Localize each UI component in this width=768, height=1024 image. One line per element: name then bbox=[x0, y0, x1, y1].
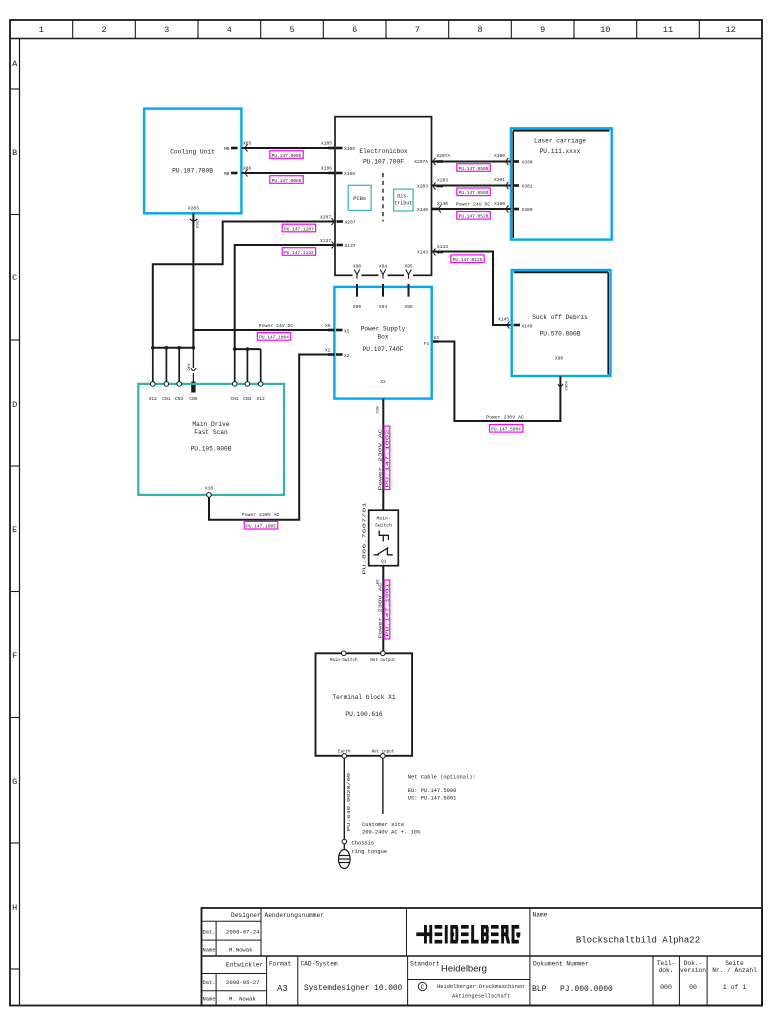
svg-text:X2: X2 bbox=[325, 348, 331, 354]
svg-text:CN3: CN3 bbox=[243, 396, 252, 402]
wire X203 to X301 bbox=[432, 177, 511, 189]
block Laser carriage bbox=[511, 128, 612, 239]
node X106 labels at Electronicbox bbox=[321, 166, 355, 177]
svg-text:PU.147.1004: PU.147.1004 bbox=[259, 335, 289, 341]
block Electronicbox bbox=[335, 117, 432, 276]
cable label PU.147.0520 bbox=[457, 212, 490, 220]
letter strip dividers bbox=[10, 89, 20, 969]
svg-text:PCBs: PCBs bbox=[353, 196, 366, 202]
cable label PU.147.0503 bbox=[457, 188, 490, 196]
svg-text:X207A: X207A bbox=[437, 153, 451, 159]
svg-text:X143: X143 bbox=[437, 244, 448, 250]
svg-text:CN1: CN1 bbox=[162, 396, 171, 402]
svg-text:9: 9 bbox=[540, 25, 545, 35]
svg-text:6: 6 bbox=[352, 25, 357, 35]
rotated cable label PU.147.1002 bbox=[384, 426, 391, 490]
svg-text:Power 24V DC: Power 24V DC bbox=[456, 202, 491, 208]
svg-text:M.Nowak: M.Nowak bbox=[229, 947, 253, 954]
grid numbers bbox=[39, 25, 736, 35]
svg-text:CN3: CN3 bbox=[175, 396, 184, 402]
svg-text:E: E bbox=[12, 525, 17, 535]
svg-text:PJ.000.0000: PJ.000.0000 bbox=[560, 985, 613, 994]
svg-text:US: PU.147.5001: US: PU.147.5001 bbox=[408, 796, 457, 802]
pin X2 bottom of PSB bbox=[377, 379, 386, 414]
pin X140 right of Electronicbox bbox=[417, 201, 448, 213]
svg-text:PU.147.0125: PU.147.0125 bbox=[453, 257, 483, 263]
pin X380 on Laser carriage bbox=[513, 207, 533, 213]
svg-text:X46: X46 bbox=[186, 364, 190, 372]
svg-text:PU.147.0505: PU.147.0505 bbox=[459, 166, 489, 172]
svg-text:G: G bbox=[12, 777, 17, 787]
svg-text:X140: X140 bbox=[437, 201, 448, 207]
svg-text:X203: X203 bbox=[188, 206, 199, 212]
svg-text:X140: X140 bbox=[417, 207, 428, 213]
svg-text:Power Supply: Power Supply bbox=[361, 326, 406, 333]
svg-text:ring tongue: ring tongue bbox=[352, 849, 388, 855]
svg-text:PU.100.616: PU.100.616 bbox=[345, 711, 382, 718]
rotated cable label PU.147.1001 bbox=[384, 580, 391, 639]
wire Cooling MB to Electronicbox X106 bbox=[241, 172, 335, 174]
block Terminal block X1 bbox=[316, 653, 413, 756]
svg-text:2008-07-24: 2008-07-24 bbox=[226, 929, 260, 936]
svg-text:Blockschaltbild Alpha22: Blockschaltbild Alpha22 bbox=[576, 936, 700, 946]
svg-text:MB: MB bbox=[224, 171, 230, 177]
wire Cooling X203 down to Main Drive bus bbox=[192, 213, 194, 347]
svg-text:8: 8 bbox=[477, 25, 482, 35]
switch actuator symbol bbox=[379, 531, 388, 541]
wire Cooling MB to Electronicbox X105 bbox=[241, 147, 335, 149]
letter strip right line bbox=[19, 39, 21, 1006]
svg-text:Dat.: Dat. bbox=[203, 980, 216, 986]
svg-text:X207: X207 bbox=[345, 220, 356, 226]
svg-text:PU.640.0020/00: PU.640.0020/00 bbox=[347, 772, 352, 831]
svg-text:BLP: BLP bbox=[532, 985, 547, 994]
svg-text:Power 230V AC: Power 230V AC bbox=[378, 428, 383, 491]
pin labels on Main Drive bbox=[149, 396, 265, 402]
wire Electronicbox X207 to Main Drive bbox=[153, 222, 335, 348]
svg-text:Heidelberg: Heidelberg bbox=[441, 964, 487, 975]
block Suck off Debris bbox=[512, 270, 611, 376]
svg-text:X106: X106 bbox=[344, 171, 355, 177]
svg-text:X105: X105 bbox=[321, 141, 332, 147]
svg-text:X301: X301 bbox=[522, 184, 533, 190]
cable label PU.147.0086 bbox=[270, 176, 303, 184]
svg-text:Nr. / Anzahl: Nr. / Anzahl bbox=[712, 967, 757, 974]
wire Electronicbox X137 to Main Drive bbox=[235, 245, 335, 349]
svg-text:Heidelberger Druckmaschinen: Heidelberger Druckmaschinen bbox=[437, 984, 524, 990]
svg-text:Aktiengesellschaft: Aktiengesellschaft bbox=[452, 994, 510, 1000]
svg-text:X95: X95 bbox=[404, 304, 413, 310]
svg-text:X902: X902 bbox=[563, 381, 567, 391]
connector X902 on wire bbox=[558, 381, 567, 391]
wire Earth to chassis bbox=[343, 758, 345, 839]
wire X143 to Suck off Debris bbox=[432, 252, 512, 326]
svg-text:PU.107.740F: PU.107.740F bbox=[363, 346, 404, 353]
svg-text:F: F bbox=[12, 651, 17, 661]
number strip dividers bbox=[73, 20, 700, 39]
grid letters bbox=[12, 59, 18, 913]
copyright symbol bbox=[418, 982, 426, 990]
svg-text:Entwickler: Entwickler bbox=[226, 962, 263, 969]
pin Net output top of Terminal block bbox=[370, 651, 396, 663]
svg-text:Box: Box bbox=[377, 334, 388, 341]
svg-text:PU.147.0503: PU.147.0503 bbox=[459, 190, 489, 196]
wire X140 to X380 Power 24V DC bbox=[432, 201, 511, 213]
pin Earth bottom of Terminal block bbox=[338, 750, 351, 759]
pin Net input bottom of Terminal block bbox=[372, 750, 395, 759]
svg-text:X137: X137 bbox=[345, 243, 356, 249]
svg-text:X140: X140 bbox=[522, 324, 533, 330]
svg-text:Designer: Designer bbox=[231, 912, 261, 919]
cable label PU.147.1207 bbox=[282, 215, 331, 233]
pin X207A right of Electronicbox bbox=[414, 153, 450, 165]
svg-text:PU.147.0085: PU.147.0085 bbox=[272, 153, 302, 159]
svg-text:Dokument Nummer: Dokument Nummer bbox=[533, 961, 589, 968]
svg-text:Standort: Standort bbox=[410, 961, 440, 968]
block Main Switch bbox=[369, 510, 399, 566]
svg-text:X207A: X207A bbox=[414, 159, 428, 165]
svg-text:Dis-: Dis- bbox=[397, 194, 409, 200]
cable label PU.147.1005 bbox=[244, 521, 277, 529]
right bus above Main Drive bbox=[233, 347, 261, 351]
pin X137 left of Electronicbox bbox=[332, 242, 356, 250]
svg-text:X137: X137 bbox=[320, 238, 331, 244]
svg-text:PU.107.700F: PU.107.700F bbox=[363, 159, 404, 166]
svg-text:X90: X90 bbox=[353, 304, 362, 310]
cable label PU.147.1004 bbox=[257, 333, 290, 341]
svg-text:Fast Scan: Fast Scan bbox=[194, 429, 228, 436]
svg-text:Laser carriage: Laser carriage bbox=[534, 138, 586, 145]
pin MB lower on Cooling Unit bbox=[224, 166, 252, 177]
svg-text:X5: X5 bbox=[325, 323, 331, 329]
pin circles on Main Drive top bbox=[151, 382, 264, 387]
svg-text:Power 230V AC: Power 230V AC bbox=[242, 512, 280, 518]
svg-text:A3: A3 bbox=[277, 984, 288, 994]
svg-text:X12: X12 bbox=[257, 396, 266, 402]
svg-text:X105: X105 bbox=[344, 146, 355, 152]
svg-text:Main Drive: Main Drive bbox=[192, 421, 229, 428]
svg-text:12: 12 bbox=[726, 25, 736, 35]
svg-text:Power 24V DC: Power 24V DC bbox=[259, 323, 294, 329]
HEIDELBERG logo bbox=[416, 925, 520, 944]
svg-text:Q1: Q1 bbox=[381, 559, 387, 564]
ground electrode symbol bbox=[339, 844, 351, 869]
svg-text:X207: X207 bbox=[320, 215, 331, 221]
svg-text:X95: X95 bbox=[404, 264, 413, 270]
block Distribut inside Electronicbox bbox=[394, 189, 414, 211]
svg-text:X145: X145 bbox=[498, 317, 509, 323]
svg-text:5: 5 bbox=[289, 25, 294, 35]
pin X95 bottom of Electronicbox bbox=[404, 264, 413, 279]
wire X207A to X330 bbox=[432, 153, 511, 165]
pin X203 bottom of Cooling Unit bbox=[188, 206, 199, 229]
svg-text:X4: X4 bbox=[434, 335, 440, 341]
svg-text:X94: X94 bbox=[379, 264, 388, 270]
svg-text:Suck off Debris: Suck off Debris bbox=[532, 314, 588, 321]
svg-text:X300: X300 bbox=[494, 153, 505, 159]
svg-text:X330: X330 bbox=[522, 160, 533, 166]
wire Electronicbox X90 to PSB X90 bbox=[353, 284, 362, 310]
pin X330 on Laser carriage bbox=[513, 160, 533, 166]
pin X4 / F4 on Power Supply Box bbox=[423, 335, 439, 347]
svg-text:PU.570.800B: PU.570.800B bbox=[540, 331, 581, 338]
svg-text:X12: X12 bbox=[149, 396, 158, 402]
svg-text:Cooling Unit: Cooling Unit bbox=[170, 149, 215, 156]
svg-text:1 of 1: 1 of 1 bbox=[723, 984, 747, 991]
svg-text:PU.105.000B: PU.105.000B bbox=[191, 446, 232, 453]
svg-text:EU: PU.147.5000: EU: PU.147.5000 bbox=[408, 788, 457, 794]
svg-text:H: H bbox=[12, 903, 17, 913]
number strip bottom line bbox=[10, 38, 762, 40]
svg-text:CN5: CN5 bbox=[189, 396, 198, 402]
bus drops to pins X12 CN1 CN3 bbox=[152, 348, 154, 384]
wire Electronicbox X95 to PSB X95 bbox=[404, 284, 413, 310]
cable label PU.147.0085 bbox=[270, 151, 303, 159]
TITLEBLOCK bbox=[202, 908, 763, 1006]
drop to CN5 with connector bbox=[186, 348, 196, 393]
svg-text:C: C bbox=[12, 273, 17, 283]
svg-text:PU.147.1002: PU.147.1002 bbox=[386, 429, 391, 488]
svg-text:PU.111.xxxx: PU.111.xxxx bbox=[540, 148, 581, 155]
svg-text:version: version bbox=[680, 967, 706, 974]
svg-text:X106: X106 bbox=[321, 166, 332, 172]
svg-text:dok.: dok. bbox=[659, 967, 674, 974]
bottom half rows bbox=[202, 973, 267, 975]
pin X94 bottom of Electronicbox bbox=[379, 264, 388, 279]
cable label PU.147.0125 bbox=[451, 255, 484, 263]
svg-text:7: 7 bbox=[415, 25, 420, 35]
svg-text:00: 00 bbox=[689, 984, 697, 991]
svg-text:2: 2 bbox=[101, 25, 106, 35]
svg-text:X380: X380 bbox=[494, 201, 505, 207]
svg-text:X90: X90 bbox=[353, 264, 362, 270]
wire Suck off Debris to mains bbox=[432, 342, 561, 422]
svg-text:CN1: CN1 bbox=[231, 396, 240, 402]
svg-text:Terminal block X1: Terminal block X1 bbox=[332, 694, 395, 701]
svg-text:X10: X10 bbox=[205, 486, 214, 492]
svg-text:X90: X90 bbox=[555, 356, 564, 362]
svg-text:CAD-System: CAD-System bbox=[301, 961, 338, 968]
pin Main-Switch top of Terminal block bbox=[330, 651, 358, 663]
svg-text:Power 230V AC: Power 230V AC bbox=[486, 415, 524, 421]
svg-text:X203: X203 bbox=[417, 184, 428, 190]
svg-text:Chassis: Chassis bbox=[352, 841, 375, 847]
svg-text:X94: X94 bbox=[379, 304, 388, 310]
svg-text:PU.806.7607/01: PU.806.7607/01 bbox=[362, 502, 367, 575]
svg-text:tribut: tribut bbox=[394, 201, 412, 207]
cable label PU.147.0505 bbox=[457, 164, 490, 172]
svg-text:X301: X301 bbox=[494, 177, 505, 183]
svg-text:10: 10 bbox=[600, 25, 610, 35]
svg-text:4: 4 bbox=[227, 25, 232, 35]
wire Electronicbox X94 to PSB X94 bbox=[379, 284, 388, 310]
svg-text:000: 000 bbox=[660, 984, 672, 991]
cable label PU.147.5004 bbox=[490, 425, 523, 433]
svg-text:F4: F4 bbox=[423, 341, 429, 347]
svg-text:D: D bbox=[12, 400, 17, 410]
block PCBs inside Electronicbox bbox=[348, 185, 371, 210]
block Power Supply Box bbox=[334, 287, 431, 399]
svg-text:A: A bbox=[12, 59, 18, 69]
switch contact symbol bbox=[374, 554, 380, 556]
wire Main Drive X10 to PSB X2 bbox=[209, 355, 334, 520]
svg-text:X2W: X2W bbox=[377, 406, 381, 414]
svg-text:Format: Format bbox=[269, 961, 292, 968]
pin MB upper on Cooling Unit bbox=[224, 141, 252, 152]
svg-text:Net Cable (optional):: Net Cable (optional): bbox=[408, 775, 476, 781]
svg-text:11: 11 bbox=[663, 25, 673, 35]
svg-text:Power 230V AC: Power 230V AC bbox=[378, 582, 383, 639]
svg-text:C: C bbox=[421, 984, 425, 991]
svg-text:Net output: Net output bbox=[370, 659, 396, 663]
svg-text:Teil-: Teil- bbox=[657, 960, 676, 967]
svg-text:Name: Name bbox=[533, 912, 548, 919]
pin X301 on Laser carriage bbox=[513, 184, 533, 190]
svg-text:Dat.: Dat. bbox=[203, 930, 216, 936]
svg-text:Switch: Switch bbox=[375, 523, 392, 529]
svg-text:3: 3 bbox=[164, 25, 169, 35]
wire Main Switch to Terminal block bbox=[382, 566, 384, 654]
svg-text:Main-Switch: Main-Switch bbox=[330, 658, 358, 663]
svg-text:PU.147.1005: PU.147.1005 bbox=[246, 524, 276, 530]
svg-text:PU.187.700B: PU.187.700B bbox=[172, 168, 213, 175]
pin X10 bottom of Main Drive bbox=[205, 486, 214, 498]
svg-text:Electronicbox: Electronicbox bbox=[359, 148, 408, 155]
svg-text:PU.147.1207: PU.147.1207 bbox=[284, 226, 314, 232]
svg-text:PU.147.5004: PU.147.5004 bbox=[491, 427, 521, 433]
svg-text:Aenderungsnummer: Aenderungsnummer bbox=[265, 912, 325, 919]
svg-text:MB: MB bbox=[224, 146, 230, 152]
pin X5 left of PSB bbox=[325, 323, 350, 335]
wire Power 24V DC from X203 node to PSB X5 bbox=[193, 329, 334, 331]
block Cooling Unit bbox=[144, 109, 241, 214]
svg-text:X2: X2 bbox=[380, 379, 386, 385]
svg-text:PU.147.0086: PU.147.0086 bbox=[272, 178, 302, 184]
block Main Drive Fast Scan bbox=[138, 384, 284, 495]
svg-text:Name: Name bbox=[203, 948, 216, 954]
svg-text:1: 1 bbox=[39, 25, 44, 35]
top half rows bbox=[202, 920, 262, 922]
svg-text:X5: X5 bbox=[344, 329, 350, 335]
svg-text:X85: X85 bbox=[243, 141, 252, 147]
node X105 labels at Electronicbox bbox=[321, 141, 355, 152]
svg-text:X143: X143 bbox=[417, 250, 428, 256]
svg-text:Customer site: Customer site bbox=[362, 822, 404, 828]
wire Net input to customer site bbox=[382, 758, 384, 814]
horizontal mid line bbox=[202, 955, 763, 957]
pin X203 right of Electronicbox bbox=[417, 178, 448, 190]
wire PSB X2W down to Main Switch bbox=[382, 399, 384, 511]
svg-text:2008-05-27: 2008-05-27 bbox=[226, 979, 260, 986]
svg-text:X380: X380 bbox=[522, 207, 533, 213]
svg-text:X203: X203 bbox=[194, 219, 198, 229]
svg-text:X2: X2 bbox=[344, 353, 350, 359]
svg-text:PU.147.1001: PU.147.1001 bbox=[386, 583, 391, 637]
cable label PU.147.1132 bbox=[282, 238, 331, 256]
pin X207 left of Electronicbox bbox=[332, 218, 356, 226]
svg-text:Dok.-: Dok.- bbox=[684, 960, 703, 967]
svg-text:M. Nowak: M. Nowak bbox=[229, 996, 256, 1003]
pin X145/X140 left of Suck off Debris bbox=[498, 317, 533, 330]
svg-text:Main-: Main- bbox=[376, 516, 390, 522]
svg-text:Seite: Seite bbox=[725, 960, 744, 967]
svg-text:X203: X203 bbox=[437, 178, 448, 184]
pin X90 bottom of Suck off Debris bbox=[555, 356, 564, 362]
svg-text:200-240V AC +- 10%: 200-240V AC +- 10% bbox=[362, 830, 421, 836]
left bus above Main Drive bbox=[151, 346, 195, 350]
pin X143 right of Electronicbox bbox=[417, 244, 448, 256]
svg-text:Name: Name bbox=[203, 997, 216, 1003]
chassis connection circle bbox=[342, 839, 347, 844]
svg-text:Systemdesigner 10.000: Systemdesigner 10.000 bbox=[304, 985, 403, 993]
pin X90 bottom of Electronicbox bbox=[353, 264, 362, 279]
pin X2 left of PSB bbox=[325, 348, 350, 360]
svg-text:X86: X86 bbox=[243, 166, 252, 172]
svg-text:B: B bbox=[12, 148, 17, 158]
svg-text:PU.147.0520: PU.147.0520 bbox=[459, 214, 489, 220]
svg-text:PU.147.1132: PU.147.1132 bbox=[284, 250, 314, 256]
